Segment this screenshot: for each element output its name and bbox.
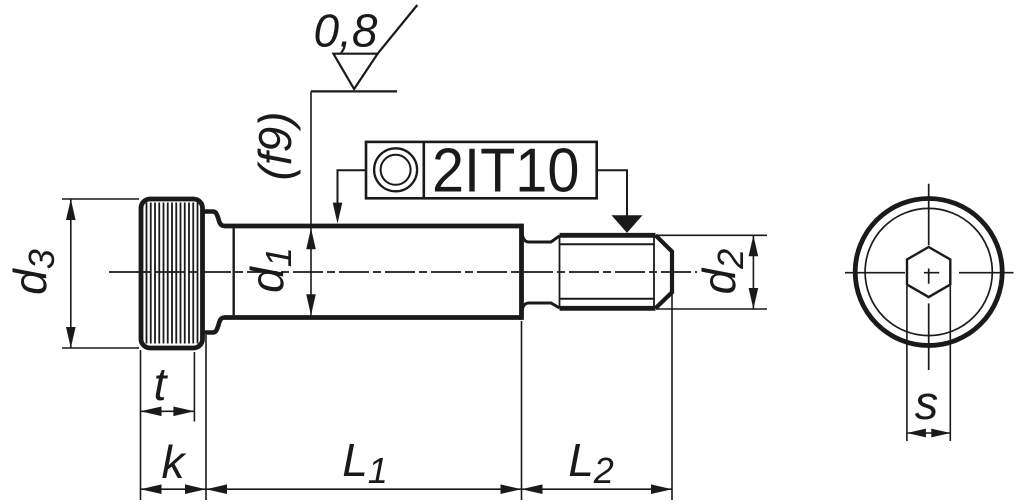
hexagon socket [907, 247, 950, 297]
end chamfer and face [656, 235, 673, 308]
svg-text:t: t [154, 358, 169, 410]
L1 arrows [206, 484, 227, 494]
d1 arrows [306, 228, 316, 249]
L2 arrows [522, 484, 543, 494]
concentricity symbol [374, 148, 417, 191]
d3 arrows [66, 199, 76, 220]
knurl lines on head [147, 203, 198, 344]
k arrows [141, 484, 162, 494]
datum triangle on thread [612, 215, 643, 233]
shoulder bottom edge [224, 315, 522, 320]
neck ledge top [203, 212, 225, 227]
shoulder right end face [519, 224, 524, 320]
outer circle [855, 199, 1002, 346]
thread OD bottom edge [560, 306, 656, 311]
thread root line bottom [560, 298, 654, 300]
s extension lines [907, 286, 950, 441]
t arrows [141, 407, 162, 417]
thread OD top edge [560, 233, 656, 238]
d1 dimension / surface leader line [310, 91, 312, 315]
arrowheads [66, 199, 950, 494]
surface finish symbol [311, 90, 397, 92]
vertical centerline [928, 184, 930, 370]
s dimension line [907, 432, 950, 434]
thread start line [559, 235, 561, 308]
s arrows [907, 429, 926, 438]
shoulder top edge [224, 224, 522, 229]
svg-text:k: k [162, 436, 187, 488]
d2 dimension [656, 235, 767, 309]
k L1 L2 extension lines [140, 350, 142, 500]
svg-text:0,8: 0,8 [314, 5, 378, 57]
feature control frame [366, 142, 597, 198]
undercut groove bottom [522, 303, 560, 314]
svg-text:2IT10: 2IT10 [432, 135, 579, 204]
inner circle [865, 208, 992, 335]
d3 dimension [62, 199, 139, 348]
head outline [141, 199, 203, 348]
centerline main axis [109, 271, 697, 273]
svg-text:s: s [915, 376, 939, 429]
leader arrow down to shoulder [333, 203, 343, 224]
k L1 L2 dimension lines [141, 488, 673, 490]
undercut groove top [522, 231, 560, 243]
horizontal centerline [845, 272, 1014, 274]
chamfer start line [653, 236, 655, 308]
d2 arrows [749, 235, 759, 256]
right leader to datum [597, 170, 627, 216]
thread root line top [560, 243, 654, 245]
neck ledge bottom [203, 318, 225, 333]
svg-text:(f9): (f9) [249, 112, 301, 181]
t dimension [193, 352, 195, 422]
left leader to shoulder [338, 170, 367, 205]
shoulder left face line [232, 228, 234, 315]
